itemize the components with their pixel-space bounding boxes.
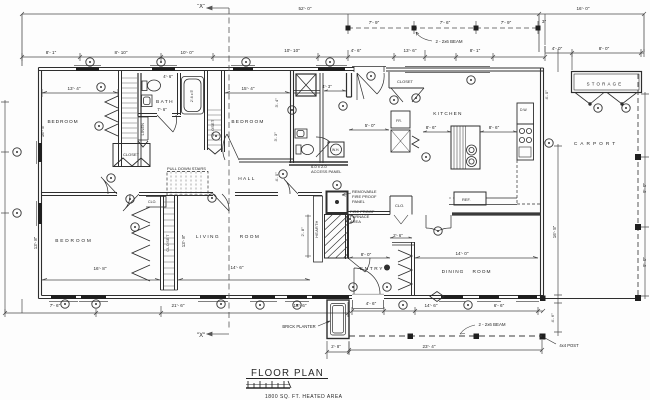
utility closet top box (389, 72, 424, 88)
kitchen dim line right (480, 131, 517, 132)
toilet bath2 tank (296, 145, 301, 154)
planter dim (325, 341, 351, 359)
kitchen island (451, 126, 480, 169)
svg-text:8'- 6": 8'- 6" (489, 125, 500, 130)
tag circle kitchen window (467, 76, 475, 84)
ticks row y57 (22, 46, 644, 61)
entry door opening gap (352, 294, 384, 301)
tag circle entry (384, 265, 390, 271)
svg-text:4'- 6": 4'- 6" (550, 313, 555, 323)
svg-text:2 - 2x6 BEAM: 2 - 2x6 BEAM (435, 39, 462, 44)
carport bottom edge (543, 298, 638, 300)
beam bottom posts (408, 334, 414, 340)
door bedroom1 (101, 177, 117, 194)
svg-text:PANEL: PANEL (352, 199, 366, 204)
svg-text:9'- 0": 9'- 0" (642, 183, 647, 193)
carport right dashed edge (637, 74, 639, 298)
dining double doors (426, 215, 451, 231)
tag circle bedroom1 closet (95, 122, 103, 130)
svg-text:16'- 8": 16'- 8" (94, 266, 107, 271)
tag circle bedroom2 closet (212, 132, 220, 140)
entry front door (354, 268, 380, 294)
bath2 dim line (324, 90, 346, 91)
entry closet dim (390, 237, 412, 238)
svg-text:REF.: REF. (462, 197, 471, 202)
svg-text:8'- 0": 8'- 0" (599, 46, 610, 51)
tag circle kitchen island (422, 153, 430, 161)
wall bedroom3 closet left (161, 196, 164, 290)
wall entry west (346, 214, 349, 259)
carport bottom dim (347, 340, 544, 354)
svg-text:7'- 6": 7'- 6" (157, 107, 167, 112)
svg-text:FLOOR PLAN: FLOOR PLAN (251, 368, 324, 379)
tag circle storage 1 (594, 104, 602, 112)
svg-text:CARPORT: CARPORT (574, 141, 618, 147)
beam bottom dashed (349, 335, 542, 337)
closet box bedroom1 (113, 144, 150, 167)
svg-text:16'- 5": 16'- 5" (40, 124, 45, 137)
storage outer box (572, 72, 642, 93)
door living/hall (213, 194, 229, 211)
svg-text:4'- 3": 4'- 3" (322, 84, 332, 89)
svg-text:STORAGE: STORAGE (587, 82, 624, 87)
back door swing (357, 73, 384, 100)
beam dimension line dashed (348, 27, 536, 29)
counter line bottom (449, 198, 517, 205)
left dim vertical (1, 100, 9, 313)
bottom dim line (3, 299, 350, 317)
wall right of tub (205, 71, 208, 150)
shelf rungs bedroom1 closet (122, 78, 137, 138)
svg-text:LIVING: LIVING (196, 234, 220, 240)
tag circle bottom 3 (217, 300, 225, 308)
ref box (454, 192, 486, 205)
wall bath left lower (138, 116, 141, 166)
door bedroom2 entry (223, 134, 239, 160)
svg-text:13'- 4": 13'- 4" (68, 86, 81, 91)
wall bath2 right (320, 73, 323, 163)
window bottom wall 7 (dining) (479, 295, 499, 299)
hearth dim arrows (305, 215, 311, 259)
kitchen dim line left (423, 131, 451, 132)
title FLOOR PLAN (246, 368, 343, 400)
svg-text:3": 3" (542, 19, 547, 24)
island burners (467, 145, 477, 155)
svg-text:W.H.: W.H. (332, 148, 339, 152)
wall bath right of tub alcove (178, 73, 181, 115)
chimney hatched box (325, 215, 348, 259)
window bottom wall 6 (dining) (441, 295, 463, 299)
wall entry closet north (392, 243, 415, 246)
section arrow top (207, 6, 229, 10)
svg-text:HALL: HALL (238, 176, 256, 182)
tag circle entry west (346, 215, 354, 223)
tag circle closet utility (412, 94, 420, 102)
window kitchen top (thin) (405, 67, 490, 73)
svg-text:DINING: DINING (442, 269, 465, 275)
utility dim line (349, 129, 389, 130)
bifold V bedroom2 closet bottom (208, 148, 222, 154)
wall bath left (138, 73, 141, 116)
svg-text:4'- 0": 4'- 0" (274, 172, 279, 182)
carport left dim (554, 144, 562, 299)
window sills top (74, 65, 347, 67)
svg-text:BEDROOM: BEDROOM (47, 119, 78, 125)
tag circle top 1 (86, 58, 94, 66)
kitchen right counter boxes (517, 103, 534, 124)
svg-text:KITCHEN: KITCHEN (433, 111, 462, 117)
wall bedroom2 bottom / hall top (239, 159, 294, 162)
svg-text:8'- 6": 8'- 6" (426, 125, 437, 130)
bottom exterior wall (39, 296, 544, 299)
svg-text:BRICK PLANTER: BRICK PLANTER (282, 324, 315, 329)
tag circle left wall 1 (13, 148, 21, 156)
tag circle entry door 1 (349, 283, 357, 291)
window bottom wall 8 (dining) (518, 295, 537, 299)
shelf rungs bedroom2 closet (208, 110, 221, 145)
bedroom2 dim line (225, 92, 290, 94)
window top wall 2 (152, 67, 175, 71)
svg-text:2'- 6": 2'- 6" (393, 233, 403, 238)
svg-text:13'- 8": 13'- 8" (181, 234, 186, 247)
back door header (352, 67, 386, 73)
bedroom3 dim line (42, 279, 160, 281)
svg-text:10'- 0": 10'- 0" (181, 50, 194, 55)
svg-text:HEARTH: HEARTH (315, 220, 319, 237)
window left sills (36, 141, 38, 226)
top exterior wall left section (39, 68, 355, 71)
removable panel leader (342, 193, 351, 196)
dimension 16'-0" line (539, 14, 644, 52)
planter outer (327, 300, 349, 339)
tag circle bottom 2 (92, 300, 100, 308)
tub bath1 (182, 77, 204, 115)
right exterior wall (541, 68, 544, 299)
svg-text:16'- 5": 16'- 5" (552, 225, 557, 238)
tag circle bottom dining a (399, 301, 407, 309)
wall bedroom3 closet right (175, 196, 178, 290)
window top wall 3 (233, 67, 253, 71)
entry stoop (353, 300, 384, 309)
tag circle storage 2 (622, 104, 630, 112)
dimension row line (22, 53, 644, 57)
dining dim line (415, 257, 538, 259)
utility FR box (391, 111, 410, 128)
wall bedroom2 closet right (222, 71, 225, 152)
svg-text:BEDROOM: BEDROOM (55, 238, 92, 244)
tag circle bottom 5 (293, 301, 301, 309)
tag circle entry door 2 (383, 283, 391, 291)
svg-text:7'- 6": 7'- 6" (440, 20, 451, 25)
dimension 52'-0" line (22, 14, 539, 66)
closet box hall CLO (146, 197, 166, 208)
bifold V bedroom1 closet box (114, 158, 150, 166)
clo door (394, 215, 408, 224)
svg-text:4'- 6": 4'- 6" (351, 48, 362, 53)
svg-text:"X": "X" (197, 333, 205, 339)
pull down stairs dashed (167, 172, 208, 196)
wall entry closet east (412, 242, 415, 296)
wall bath2 / furnace bottom (289, 162, 348, 165)
tag circle utility (390, 96, 398, 104)
svg-text:23'- 4": 23'- 4" (423, 344, 436, 349)
beam row ticks (348, 14, 545, 45)
top row end ticks (20, 12, 646, 16)
window bottom wall 1 (51, 295, 76, 299)
section cut dashed line X (228, 8, 230, 330)
post dim vertical (554, 299, 562, 336)
svg-text:CLOSET: CLOSET (211, 119, 215, 136)
sink bath2 (295, 129, 307, 138)
wall kitchen south dark (452, 212, 541, 215)
svg-text:CLOSET: CLOSET (166, 234, 170, 252)
svg-text:8'- 1": 8'- 1" (46, 50, 57, 55)
svg-text:2'-6 x 5': 2'-6 x 5' (190, 90, 194, 103)
svg-text:6'- 6": 6'- 6" (494, 303, 505, 308)
svg-text:2'- 8": 2'- 8" (331, 344, 341, 349)
svg-text:16'- 0": 16'- 0" (577, 6, 590, 11)
svg-text:4'- 0": 4'- 0" (552, 46, 563, 51)
tag circle carport (545, 139, 553, 147)
svg-text:14'- 6": 14'- 6" (231, 265, 244, 270)
tag circle hall east (279, 170, 287, 178)
tag circle bottom dining b (464, 301, 472, 309)
svg-text:3'- 3": 3'- 3" (273, 132, 278, 142)
storage dim verticals (545, 46, 572, 72)
svg-text:14'- 6": 14'- 6" (425, 303, 438, 308)
svg-text:14'- 0": 14'- 0" (456, 251, 469, 256)
svg-text:CLOSET: CLOSET (397, 79, 414, 84)
door bedroom3 (123, 194, 139, 211)
wall entry north (348, 212, 390, 215)
wall hall bottom long (41, 193, 322, 196)
bottom sills (49, 301, 539, 303)
svg-text:5'- 0": 5'- 0" (365, 123, 376, 128)
linen strip box (138, 117, 148, 140)
section arrow bottom (207, 332, 229, 336)
svg-text:13'- 8": 13'- 8" (33, 236, 38, 249)
zigzag bedroom1 closet doors (105, 96, 118, 136)
closet CLO walls (entry north closet) (390, 196, 412, 215)
beam top posts (346, 26, 351, 31)
window bottom wall 5b (front of planter) (312, 295, 349, 299)
utility box 2 (391, 130, 410, 152)
door bath1 (157, 115, 177, 132)
tag circle bedroom1 window (97, 83, 105, 91)
zigzag bedroom3 closet doors (132, 207, 150, 281)
svg-text:8'- 10": 8'- 10" (115, 50, 128, 55)
svg-text:LINEN: LINEN (141, 123, 145, 136)
wall bedroom1 right (119, 71, 122, 166)
living dim line (178, 279, 310, 281)
window bottom wall 3 (200, 295, 226, 299)
svg-text:CLO.: CLO. (148, 200, 156, 204)
shower X (296, 74, 316, 96)
svg-text:3'- 4": 3'- 4" (274, 98, 279, 108)
top exterior wall right section (386, 68, 544, 71)
sink bath1 (142, 95, 153, 107)
window bottom wall 2 (81, 295, 106, 299)
svg-text:1800 SQ. FT. HEATED AREA: 1800 SQ. FT. HEATED AREA (265, 394, 343, 400)
svg-text:2'- 8": 2'- 8" (300, 227, 305, 237)
storage inner line (574, 74, 639, 90)
svg-text:7'- 9": 7'- 9" (369, 20, 380, 25)
window left wall 2 (38, 203, 42, 224)
wall closet bottom stub (161, 289, 178, 291)
planter leader (318, 321, 330, 326)
door hall east (284, 179, 298, 194)
hearth strip (314, 196, 323, 262)
door bath2 (316, 137, 330, 157)
post leader (545, 338, 556, 344)
svg-text:"X": "X" (197, 4, 205, 10)
shower bath2 box (296, 74, 316, 96)
svg-text:4x4 POST: 4x4 POST (559, 343, 579, 348)
svg-text:D.W.: D.W. (520, 108, 527, 112)
zigzag utility (412, 136, 419, 148)
svg-text:7'- 9": 7'- 9" (501, 20, 512, 25)
entry dim line (349, 257, 390, 258)
post carport SW (540, 296, 546, 302)
toilet bath1 tank (142, 81, 147, 91)
svg-text:ACCESS PANEL: ACCESS PANEL (311, 169, 342, 174)
tag circle back door (367, 72, 375, 80)
svg-text:4'- 6": 4'- 6" (163, 74, 173, 79)
svg-text:21'- 6": 21'- 6" (172, 303, 185, 308)
kitchen upper cab dashed right (517, 160, 541, 204)
tag circle bath2 a (339, 102, 347, 110)
window top wall 4 (bath2) (318, 67, 345, 71)
left exterior wall (39, 68, 42, 299)
wall bedroom2 right / bath2 left (291, 71, 294, 163)
tag circle bedroom3 closet (131, 223, 139, 231)
post carport E (635, 224, 641, 230)
planter label leader arrow (326, 321, 330, 323)
post 4x4 (540, 334, 546, 340)
tag circle top 3 (242, 58, 250, 66)
svg-text:ROOM: ROOM (473, 269, 492, 275)
utility closet door swing (391, 88, 424, 102)
svg-text:8'- 1": 8'- 1" (470, 48, 481, 53)
storage doors V (575, 93, 637, 105)
water heater box (328, 142, 344, 157)
tag circle shower (288, 106, 296, 114)
svg-text:ROOM: ROOM (240, 234, 261, 240)
svg-text:13'- 6": 13'- 6" (404, 48, 417, 53)
svg-text:BEDROOM: BEDROOM (231, 119, 264, 125)
post carport SE (635, 295, 641, 301)
svg-text:4'- 6": 4'- 6" (366, 301, 377, 306)
tag circle living door (208, 194, 216, 202)
window bottom wall 4 (252, 295, 275, 299)
scale bar (246, 381, 291, 388)
tag circle furnace (333, 181, 341, 189)
window bottom wall 5 (287, 295, 307, 299)
bedroom1 dim line (42, 89, 118, 97)
planter inner (331, 304, 346, 336)
zigzag entry closet doors (398, 250, 412, 290)
diamond marker dining sill (430, 292, 444, 302)
tag circle dining doors (434, 227, 442, 235)
bottom dim line right (350, 307, 545, 315)
svg-text:FR.: FR. (396, 119, 402, 123)
wall bath bottom (138, 114, 181, 117)
post carport NE (635, 154, 641, 160)
svg-text:15'- 4": 15'- 4" (242, 86, 255, 91)
furnace box (327, 192, 348, 214)
tag circle top 4 (326, 58, 334, 66)
wall shower bottom (294, 91, 320, 94)
beam bottom leader (460, 325, 475, 334)
svg-text:CLO.: CLO. (395, 203, 404, 208)
svg-text:4'- 0": 4'- 0" (544, 90, 549, 100)
bifold V linen bottom (138, 141, 148, 147)
svg-text:52'- 0": 52'- 0" (299, 6, 312, 11)
entry west door (348, 258, 370, 272)
svg-text:PULL DOWN STAIRS: PULL DOWN STAIRS (167, 166, 206, 171)
svg-text:CLOSET: CLOSET (123, 152, 140, 157)
svg-text:10'- 10": 10'- 10" (284, 48, 300, 53)
svg-text:7'- 6": 7'- 6" (50, 303, 61, 308)
wall left of back door (347, 73, 352, 97)
chimney hatch (325, 215, 348, 259)
shelf rungs bedroom3 closet (164, 202, 174, 286)
tag circle bottom 4 (256, 301, 264, 309)
svg-text:BATH: BATH (156, 99, 174, 105)
carport right dim (641, 92, 649, 299)
tag circle hall door (126, 195, 134, 203)
window left wall 1 (38, 143, 42, 162)
window top wall 1 (76, 67, 99, 71)
svg-text:2 - 2x6 BEAM: 2 - 2x6 BEAM (478, 322, 505, 327)
tag circle left wall 2 (13, 209, 21, 217)
beam top leader (416, 32, 432, 41)
tag circle bedroom1 door (107, 174, 115, 182)
tag circle bottom 1 (61, 300, 69, 308)
toilet bath2 bowl (302, 145, 314, 155)
tag circle top 2 (157, 58, 165, 66)
slash marks row y57 (20, 51, 643, 59)
toilet bath1 bowl (148, 80, 161, 91)
svg-text:9'- 0": 9'- 0" (642, 257, 647, 267)
svg-text:8'- 0": 8'- 0" (361, 252, 372, 257)
